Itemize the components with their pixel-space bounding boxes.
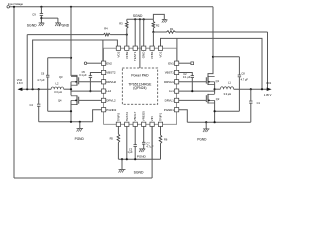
capacitor C7 VREG5 bbox=[143, 126, 145, 142]
svg-text:Q3: Q3 bbox=[59, 75, 63, 79]
wire VIN riser bbox=[151, 126, 153, 178]
svg-text:Power PAD: Power PAD bbox=[131, 73, 149, 77]
svg-text:(QFN24): (QFN24) bbox=[133, 86, 146, 90]
capacitor C4 bbox=[38, 88, 40, 90]
svg-text:C4: C4 bbox=[29, 103, 33, 107]
wire DRVH1 bbox=[179, 81, 207, 83]
svg-text:VIN: VIN bbox=[150, 116, 154, 121]
wire TEST1 drop bbox=[134, 18, 136, 20]
resistor R1 bbox=[167, 31, 176, 34]
svg-text:C8: C8 bbox=[241, 72, 245, 76]
node C8 tap bbox=[212, 56, 214, 58]
ground PGND near C9 bbox=[55, 22, 61, 24]
svg-text:1 µF: 1 µF bbox=[127, 150, 133, 154]
transistor Q3 bbox=[76, 76, 78, 86]
chip PowerPAD inner box bbox=[122, 68, 157, 104]
node C6 return join bbox=[70, 110, 72, 112]
svg-text:DRVL2: DRVL2 bbox=[106, 98, 116, 102]
svg-text:C9: C9 bbox=[32, 12, 36, 16]
svg-text:C1: C1 bbox=[257, 101, 261, 105]
svg-text:EN2: EN2 bbox=[106, 61, 112, 65]
svg-text:TEST1: TEST1 bbox=[133, 51, 137, 61]
svg-text:L1: L1 bbox=[228, 80, 231, 84]
ground PGND right FETs bbox=[203, 128, 210, 130]
node switch ch1 bbox=[214, 88, 216, 90]
wire C9 gnd split bbox=[40, 17, 42, 19]
svg-text:DRVH2: DRVH2 bbox=[106, 80, 116, 84]
wire TEST2 drop bbox=[126, 126, 128, 159]
wire EN2 branch bbox=[102, 40, 104, 63]
node VFB1 junction bbox=[152, 31, 154, 33]
capacitor C9 bbox=[40, 7, 42, 14]
wire DRVH2 bbox=[79, 81, 102, 83]
wire Q2 source drop bbox=[214, 100, 216, 122]
chip pins bottom row bbox=[116, 122, 120, 126]
svg-text:Input Voltage: Input Voltage bbox=[8, 2, 24, 6]
wire EN1 bbox=[179, 62, 191, 64]
node right gnd drop bbox=[205, 121, 207, 123]
svg-text:LL2: LL2 bbox=[106, 89, 111, 93]
capacitor C8 bbox=[238, 74, 241, 76]
svg-text:VBST2: VBST2 bbox=[106, 71, 116, 75]
svg-text:R4: R4 bbox=[104, 27, 108, 31]
inductor L2 bbox=[51, 87, 64, 89]
wire PGND2 elbow bbox=[93, 110, 102, 122]
svg-text:R5: R5 bbox=[110, 136, 114, 140]
svg-text:PGND1: PGND1 bbox=[164, 108, 174, 112]
svg-text:Q4: Q4 bbox=[58, 99, 62, 103]
wire left drain drop bbox=[71, 7, 77, 77]
wire SGND bus bbox=[127, 18, 154, 20]
capacitor C1 bbox=[250, 89, 252, 101]
svg-text:DRVL1: DRVL1 bbox=[165, 98, 175, 102]
wire fb line ch2 R4 bbox=[26, 35, 28, 90]
svg-text:PGND: PGND bbox=[197, 138, 207, 142]
svg-text:SGND: SGND bbox=[134, 171, 144, 175]
wire LL1 bbox=[177, 90, 215, 92]
svg-text:R1: R1 bbox=[170, 27, 174, 31]
wire DRVL2 bbox=[79, 99, 102, 101]
wire bottom SGND bus bbox=[118, 158, 160, 160]
svg-text:TEST2: TEST2 bbox=[125, 112, 129, 122]
svg-text:L2: L2 bbox=[56, 82, 59, 86]
wire C8 branch bbox=[213, 56, 239, 58]
node C5 to LL2 bbox=[89, 90, 91, 92]
wire VO2 output line bbox=[19, 88, 51, 90]
resistor R4 bbox=[104, 33, 111, 36]
node top rail junctions bbox=[13, 6, 15, 8]
node C1 tap bbox=[250, 88, 252, 90]
svg-text:0.1 µF: 0.1 µF bbox=[183, 75, 191, 79]
svg-text:PGND: PGND bbox=[75, 137, 85, 141]
wire VBST1 and capacitor C2 bbox=[179, 73, 193, 76]
terminal EN2 bbox=[84, 62, 87, 64]
chip TPS51124 outline bbox=[104, 48, 177, 124]
node switch ch2 bbox=[70, 88, 72, 90]
svg-text:R2: R2 bbox=[156, 23, 160, 27]
node sense tap ch2 bbox=[31, 88, 33, 90]
wire VO1 sense line bbox=[161, 38, 263, 89]
svg-text:R6: R6 bbox=[164, 138, 168, 142]
transistor Q1 bbox=[207, 76, 209, 85]
svg-text:DRVH1: DRVH1 bbox=[164, 80, 174, 84]
wire VFB1 drop bbox=[152, 32, 154, 46]
svg-text:4.7 µF: 4.7 µF bbox=[146, 145, 154, 148]
svg-text:Q2: Q2 bbox=[216, 97, 220, 101]
wire pad gnd drop bbox=[139, 18, 141, 20]
svg-text:VREG5: VREG5 bbox=[142, 111, 146, 122]
wire VO2 sense line bbox=[33, 40, 118, 89]
output arrow VO2 bbox=[18, 87, 23, 91]
svg-text:PGND2: PGND2 bbox=[106, 108, 116, 112]
wire EN2 bbox=[87, 62, 102, 64]
ground SGND bottom bbox=[119, 168, 126, 170]
wire right PGND rail bbox=[187, 121, 251, 123]
svg-text:PGND: PGND bbox=[59, 23, 69, 27]
node left gnd drop bbox=[79, 121, 81, 123]
ground SGND near C9 bbox=[39, 22, 45, 24]
wire VBST2 and capacitor C5 bbox=[90, 73, 101, 76]
ground PGND C7 bbox=[139, 148, 145, 150]
svg-text:LL1: LL1 bbox=[169, 89, 174, 93]
svg-text:EN1: EN1 bbox=[168, 61, 174, 65]
chip pins top row bbox=[117, 45, 119, 47]
svg-text:VFB2: VFB2 bbox=[125, 51, 129, 59]
wire LL2 bbox=[71, 90, 101, 92]
wire top rail bbox=[9, 6, 213, 8]
wire SGND stub to ground bbox=[153, 14, 164, 19]
svg-text:VBST1: VBST1 bbox=[165, 71, 175, 75]
wire Q4 source drop bbox=[70, 100, 72, 121]
wire PGND1 elbow bbox=[179, 110, 188, 123]
wire switch node ch2 bbox=[70, 82, 72, 96]
svg-text:SGND: SGND bbox=[133, 14, 143, 18]
svg-text:C6: C6 bbox=[41, 71, 45, 75]
svg-text:1.8 V: 1.8 V bbox=[17, 81, 23, 85]
svg-text:VO1: VO1 bbox=[266, 81, 272, 85]
svg-text:4.7 µF: 4.7 µF bbox=[241, 77, 249, 81]
resistor R2 bbox=[152, 19, 154, 21]
svg-text:VO1: VO1 bbox=[159, 51, 163, 57]
node C6 tap bbox=[70, 57, 72, 59]
terminal EN1 bbox=[191, 62, 194, 65]
resistor R6 TRIP1 bbox=[160, 126, 162, 135]
transistor Q4 bbox=[76, 95, 78, 105]
svg-text:TRIP1: TRIP1 bbox=[159, 112, 163, 121]
svg-text:VFB1: VFB1 bbox=[150, 51, 154, 59]
wire bottom VIN rail bbox=[14, 177, 152, 179]
wire left PGND rail bbox=[39, 121, 93, 123]
wire VFB2 drop bbox=[126, 35, 128, 47]
node fb tap ch2 bbox=[26, 88, 28, 90]
node SGND drop bbox=[121, 158, 123, 160]
chip pins left column bbox=[101, 61, 105, 65]
output arrow VO1 bbox=[267, 87, 272, 91]
wire fb drop ch1 bbox=[267, 32, 269, 89]
resistor R3 bbox=[126, 19, 128, 21]
transistor Q2 bbox=[207, 94, 209, 104]
wire VO1 output line bbox=[234, 88, 267, 90]
wire VIN drop bbox=[151, 126, 153, 159]
resistor R5 TRIP2 bbox=[117, 126, 119, 134]
wire C6 branch bbox=[48, 57, 71, 59]
capacitor C3 V5FILT bbox=[134, 126, 136, 144]
input terminal bbox=[7, 6, 10, 9]
wire right rail drop bbox=[208, 7, 213, 77]
node Q2 source rail bbox=[214, 121, 216, 123]
svg-text:V5FILT: V5FILT bbox=[133, 112, 137, 122]
node sense join ch1 bbox=[261, 88, 263, 90]
svg-text:0.1 µF: 0.1 µF bbox=[79, 73, 87, 77]
svg-text:4.7 µF: 4.7 µF bbox=[37, 78, 45, 82]
svg-text:3.3 µH: 3.3 µH bbox=[54, 90, 62, 94]
svg-text:VO2: VO2 bbox=[116, 51, 120, 57]
wire input left drop bbox=[13, 7, 15, 178]
svg-text:TRIP2: TRIP2 bbox=[116, 112, 120, 121]
svg-text:3.3 µH: 3.3 µH bbox=[223, 92, 231, 96]
ground SGND top right bbox=[162, 18, 167, 20]
wire fb line ch1 R1 bbox=[153, 31, 166, 33]
wire GND pin drop bbox=[143, 18, 145, 20]
chip pins right column bbox=[174, 61, 178, 65]
svg-text:GND: GND bbox=[142, 51, 146, 59]
wire DRVL1 bbox=[179, 99, 207, 101]
node Q4 source rail bbox=[70, 121, 72, 123]
svg-text:Q1: Q1 bbox=[216, 79, 220, 83]
svg-text:1.05 V: 1.05 V bbox=[264, 93, 272, 97]
svg-text:SGND: SGND bbox=[27, 23, 37, 27]
capacitor C6 bbox=[46, 74, 49, 76]
node C8 return join bbox=[214, 110, 216, 112]
svg-text:PGND: PGND bbox=[137, 154, 147, 158]
wire C6 return bbox=[48, 110, 71, 112]
wire C8 return bbox=[215, 110, 240, 112]
wire Q1 source to switch bbox=[214, 82, 216, 94]
inductor L1 bbox=[215, 88, 221, 90]
node VFB2 junction bbox=[126, 34, 128, 36]
wire EN1 branch bbox=[176, 38, 178, 63]
ground PGND left FETs bbox=[77, 127, 84, 129]
svg-text:R3: R3 bbox=[119, 22, 123, 26]
